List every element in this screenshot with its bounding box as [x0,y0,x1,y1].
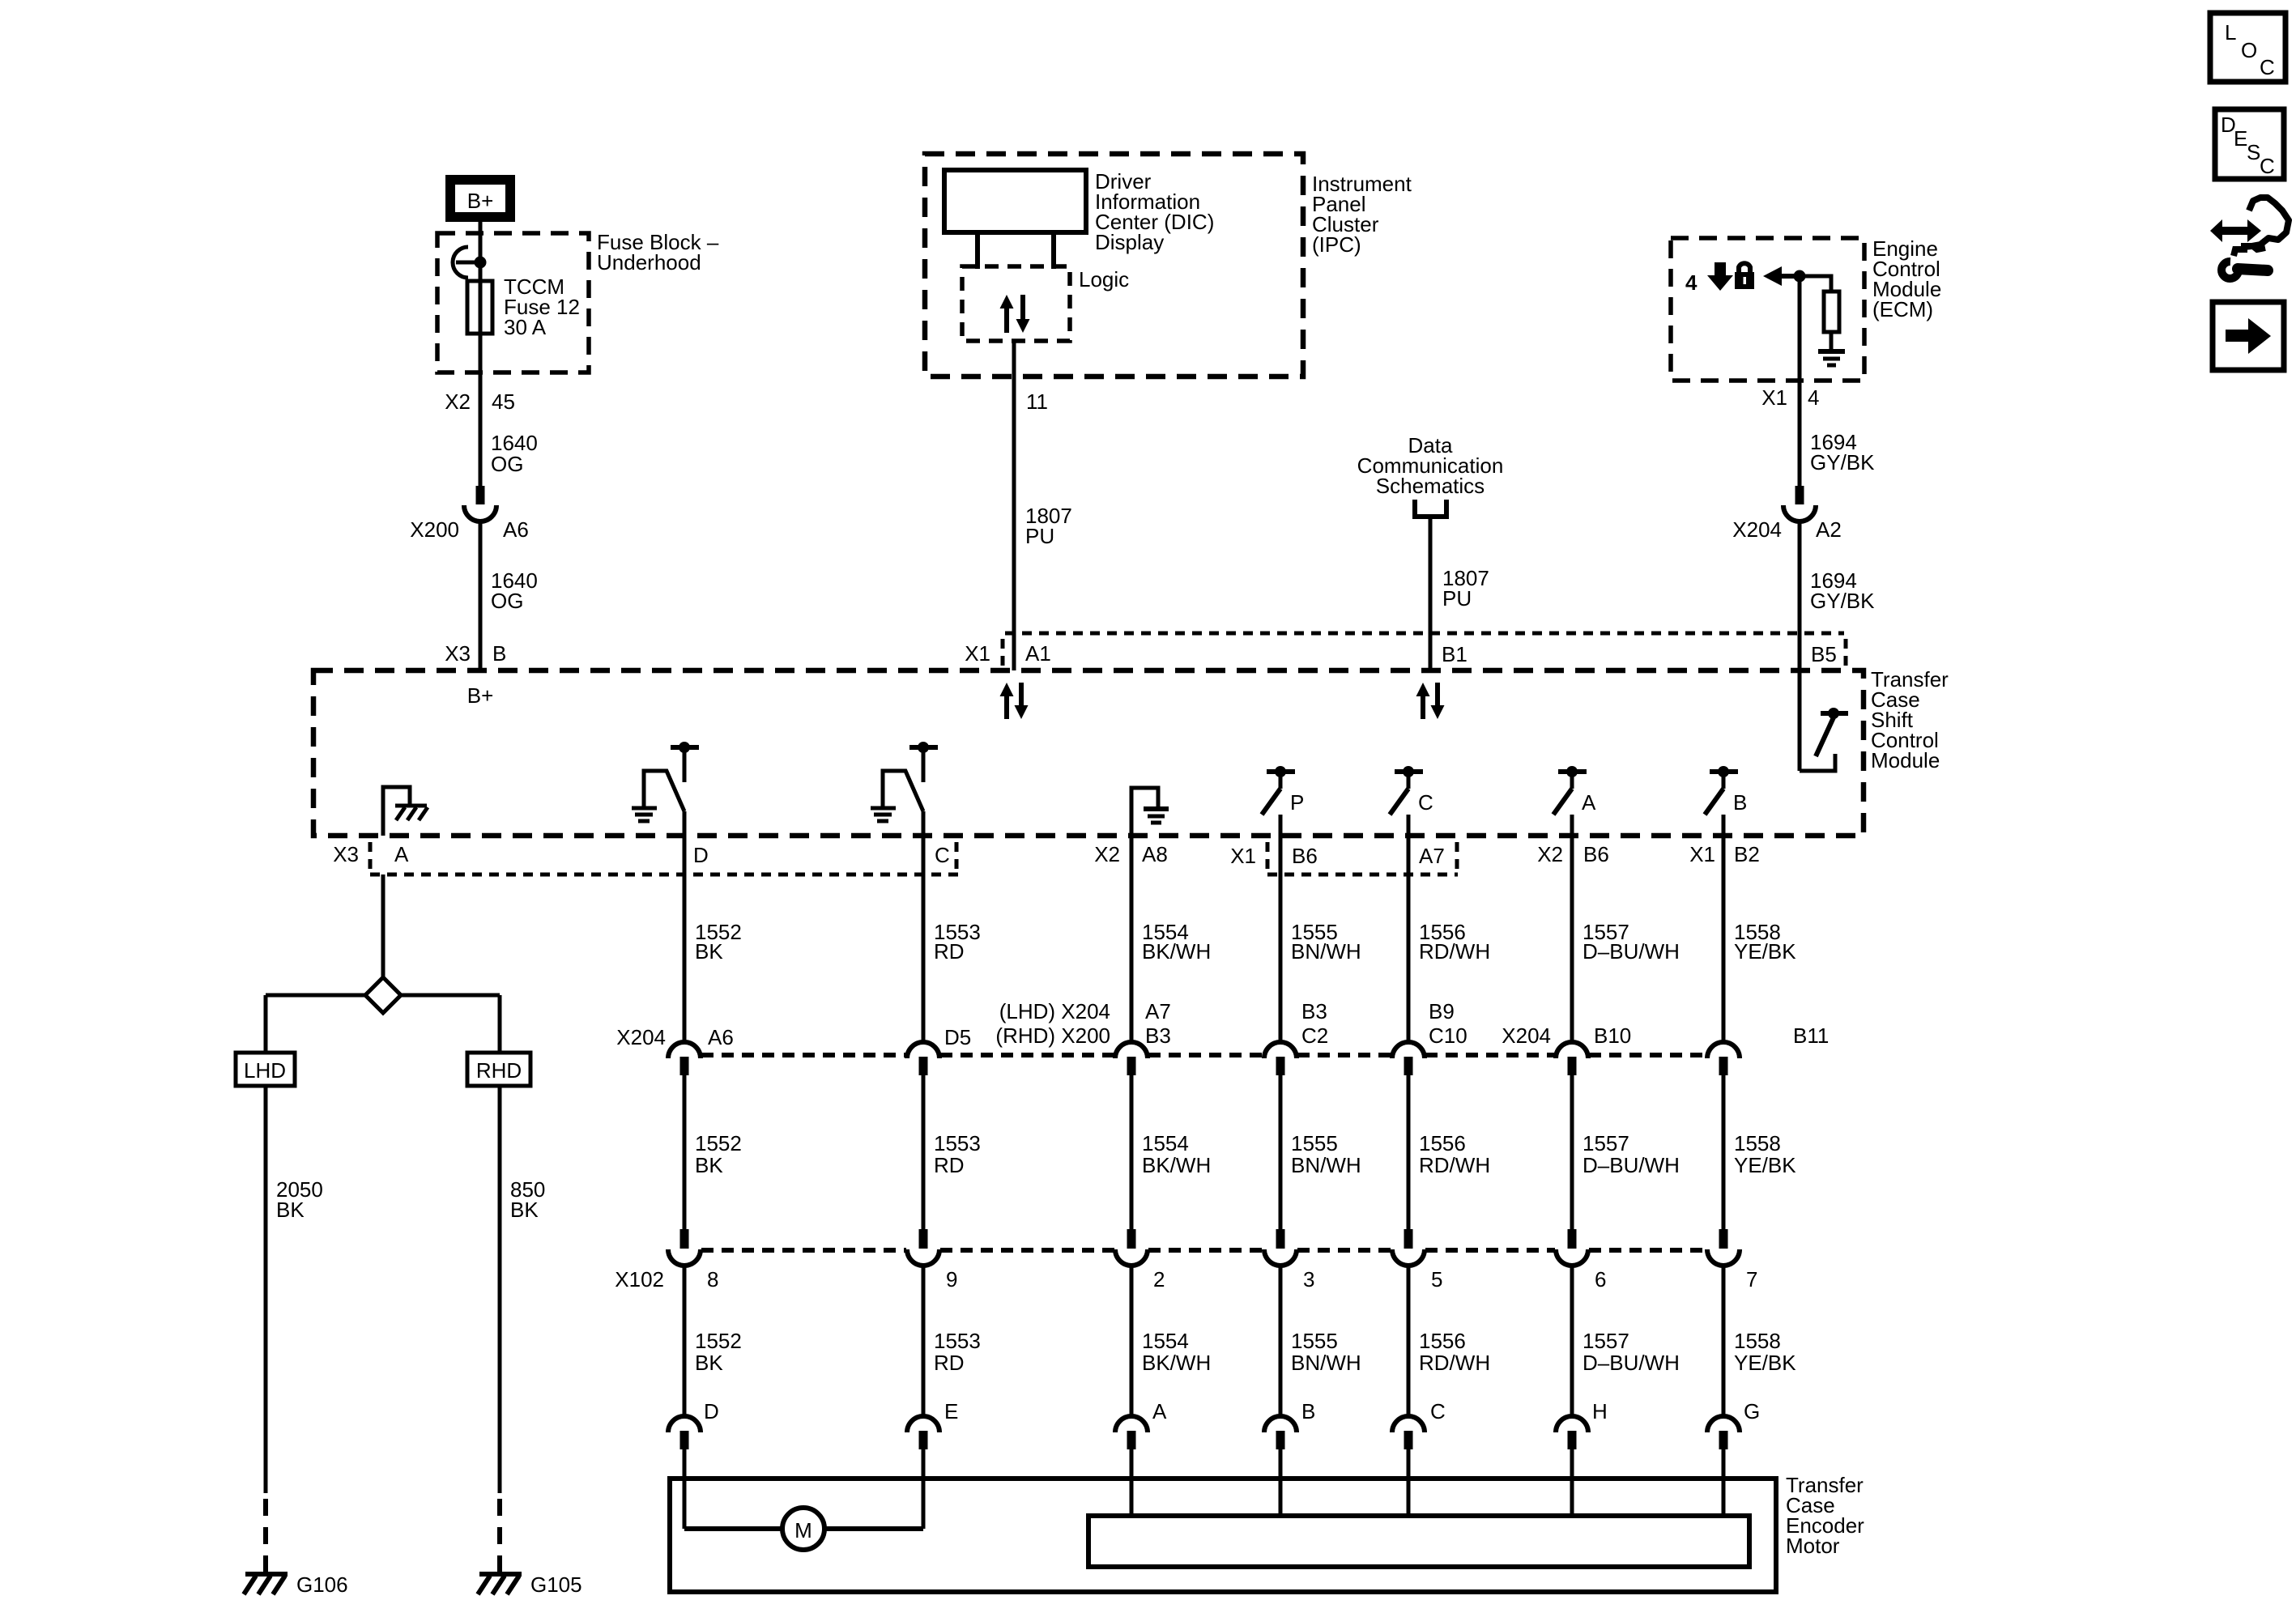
svg-text:GY/BK: GY/BK [1810,589,1875,613]
wire label 1554 BK/WH (3) [1142,1329,1211,1375]
DIC display box [944,170,1086,232]
wire 1554 BK/WH seg3 [1130,1266,1134,1418]
svg-text:BK/WH: BK/WH [1142,1153,1211,1177]
connector B5 right divider stub [1844,639,1848,666]
encoder contact bar [1088,1516,1749,1567]
connector X1 divider stub (mid) [1266,842,1270,869]
svg-text:3: 3 [1303,1267,1314,1291]
fuse block underhood dashed box [437,233,589,372]
splice diamond [365,977,401,1013]
wire label 1558 YE/BK (1) [1734,920,1796,964]
wire 1552 BK seg3 [683,1266,687,1418]
ground branch X2 A8 [1131,788,1169,836]
wire 1557 D-BU/WH seg1 [1570,815,1574,1044]
svg-text:D–BU/WH: D–BU/WH [1582,1351,1680,1375]
logic dashed box [962,266,1070,341]
wire stub to RHD box [498,995,502,1053]
svg-text:7: 7 [1746,1267,1757,1291]
switch A [1553,766,1596,815]
svg-text:RD: RD [934,939,965,964]
svg-text:C: C [1418,790,1433,815]
ground G106 [244,1572,348,1597]
wire label 1552 BK (1) [695,920,742,964]
wire label 1555 BN/WH (3) [1291,1329,1361,1375]
svg-text:D: D [704,1399,719,1423]
svg-text:X3: X3 [445,641,471,666]
svg-text:D–BU/WH: D–BU/WH [1582,1153,1680,1177]
wire label 1558 YE/BK (3) [1734,1329,1796,1375]
svg-text:B11: B11 [1793,1023,1829,1048]
svg-text:M: M [794,1518,812,1543]
wire 1555 BN/WH seg3 [1279,1266,1283,1418]
svg-text:1554: 1554 [1142,1329,1189,1353]
up-down arrows below B1 [1416,683,1445,719]
svg-text:11: 11 [1026,389,1048,414]
svg-text:X2: X2 [1537,842,1563,866]
connector pin B11 [1707,1023,1829,1075]
connector pin 7 [1707,1229,1757,1291]
svg-text:BK/WH: BK/WH [1142,1351,1211,1375]
pin label X1 B6 [1230,844,1318,868]
svg-text:A6: A6 [503,517,529,542]
svg-text:B9: B9 [1429,999,1455,1023]
connector pin 3 [1264,1229,1314,1291]
svg-text:1554: 1554 [1142,1131,1189,1155]
connector X204 pin A6 [616,1025,734,1075]
svg-text:BK: BK [695,1351,723,1375]
wire label 1553 RD (2) [934,1131,981,1177]
transfer case encoder motor box [670,1479,1776,1592]
wire B+ feed to fuse block [479,222,483,487]
svg-text:OG: OG [491,589,523,613]
wire label 1640 OG lower [491,568,538,613]
svg-text:9: 9 [946,1267,957,1291]
connector pin 2 [1115,1229,1165,1291]
svg-text:X1: X1 [1761,385,1787,410]
svg-text:G106: G106 [296,1572,348,1597]
ground branch X3 A [383,787,428,836]
svg-text:B: B [1733,790,1747,815]
pin label X2 45 [445,389,515,414]
svg-text:X1: X1 [965,641,990,666]
svg-text:1555: 1555 [1291,1131,1338,1155]
svg-text:RD: RD [934,1153,965,1177]
ground G105 [478,1572,582,1597]
switch B [1705,766,1747,815]
wire DIC leg left [975,232,980,269]
svg-text:4: 4 [1685,270,1698,295]
svg-text:RD: RD [934,1351,965,1375]
svg-text:(IPC): (IPC) [1312,232,1361,257]
wire DIC leg right [1051,232,1056,269]
svg-text:B6: B6 [1292,844,1318,868]
svg-text:B1: B1 [1442,642,1467,666]
connector row X204/X200 dashed links [701,1053,1706,1057]
svg-text:B: B [492,641,506,666]
wire D to motor [683,1449,687,1529]
svg-text:O: O [2241,38,2257,62]
svg-text:YE/BK: YE/BK [1734,939,1796,964]
svg-text:RHD: RHD [476,1058,522,1083]
wire label 1557 D-BU/WH (2) [1582,1131,1680,1177]
svg-text:RD/WH: RD/WH [1419,939,1490,964]
connector pin 5 [1392,1229,1442,1291]
connector row X102 dashed links [701,1248,1706,1253]
svg-text:B3: B3 [1301,999,1327,1023]
connector row X1 dashed line (bottom mid) [1267,873,1458,877]
motor connector pin B [1264,1399,1315,1449]
svg-text:B+: B+ [467,189,494,213]
wire label 1554 BK/WH (1) [1142,920,1211,964]
svg-text:P: P [1290,790,1304,815]
wire label 1807 PU (DIC) [1025,504,1072,548]
svg-text:C: C [2260,55,2275,79]
switch B5 mode select [1800,708,1848,771]
wire A to encoder [1130,1449,1134,1516]
wire label 1557 D-BU/WH (3) [1582,1329,1680,1375]
svg-text:1552: 1552 [695,1329,742,1353]
module label [1871,667,1949,772]
motor M [782,1508,824,1550]
battery B+ terminal box [445,175,515,222]
connector row X1 dashed line (top) [1005,632,1844,636]
svg-text:PU: PU [1442,586,1472,611]
svg-text:1552: 1552 [695,1131,742,1155]
wire label 1557 D-BU/WH (1) [1582,920,1680,964]
wire 1553 RD seg1 [922,811,926,1044]
svg-text:Module: Module [1871,748,1940,772]
connector pins B3 C2 [1264,999,1328,1075]
svg-text:C10: C10 [1429,1023,1467,1048]
pin label X1 A1 [965,641,1051,666]
svg-text:A7: A7 [1419,844,1445,868]
svg-text:G: G [1744,1399,1760,1423]
svg-text:BN/WH: BN/WH [1291,1153,1361,1177]
svg-text:Motor: Motor [1786,1534,1840,1558]
svg-text:BN/WH: BN/WH [1291,1351,1361,1375]
svg-text:(ECM): (ECM) [1872,297,1933,321]
connector pins B9 C10 [1392,999,1467,1075]
svg-text:1553: 1553 [934,1131,981,1155]
wire ground branch to diamond [381,874,386,980]
svg-text:1556: 1556 [1419,1131,1466,1155]
svg-text:2: 2 [1153,1267,1165,1291]
LOC reference box [2210,13,2285,82]
wire 1558 YE/BK seg1 [1722,815,1726,1044]
svg-text:C: C [935,843,950,867]
svg-text:B: B [1301,1399,1315,1423]
svg-text:E: E [2234,126,2247,151]
ECM internal pull-up resistor [1800,276,1839,350]
svg-text:X204: X204 [616,1025,666,1049]
svg-text:1557: 1557 [1582,1131,1629,1155]
wire 1554 BK/WH seg1 [1130,836,1134,1044]
wire 850 BK solid [498,1086,502,1493]
wire label 1556 RD/WH (1) [1419,920,1490,964]
motor connector pin G [1707,1399,1760,1449]
pin label X3 B [445,641,506,666]
left arrowhead to wire [1763,266,1806,286]
svg-text:YE/BK: YE/BK [1734,1351,1796,1375]
switch C [1390,766,1433,815]
fuse block label [597,230,719,274]
diagnostic hand-wrench icon [2210,198,2289,279]
wire 1553 RD seg2 [922,1075,926,1230]
wire label 1694 GY/BK lower [1810,568,1875,613]
svg-text:G105: G105 [530,1572,582,1597]
svg-text:6: 6 [1595,1267,1606,1291]
engine control module ECM dashed box [1671,238,1864,381]
wire stub to LHD box [264,995,268,1053]
circuit breaker hook symbol [453,247,487,278]
pin label X1 B2 [1689,842,1760,866]
wire 1694 GY/BK from ECM [1798,276,1802,487]
wire G to encoder [1722,1449,1726,1516]
motor connector pin C [1392,1399,1446,1449]
svg-text:BK: BK [510,1198,539,1222]
connector C divider stub [955,842,959,869]
svg-text:RD/WH: RD/WH [1419,1351,1490,1375]
wire E to motor [922,1449,926,1529]
wire 1694 GY/BK to module [1798,521,1802,771]
motor connector pin E [907,1399,958,1449]
wire label 1556 RD/WH (2) [1419,1131,1490,1177]
svg-text:YE/BK: YE/BK [1734,1153,1796,1177]
svg-text:A8: A8 [1142,842,1168,866]
wire 1807 PU from logic [1012,341,1016,670]
wire label 1553 RD (1) [934,920,981,964]
wire 1557 D-BU/WH seg3 [1570,1266,1574,1418]
wire 1556 RD/WH seg1 [1407,815,1411,1044]
svg-text:X2: X2 [1094,842,1120,866]
wire LHD/RHD branch bar [266,994,500,998]
svg-text:A1: A1 [1025,641,1051,666]
off-page reference bracket [1412,500,1449,517]
svg-text:B2: B2 [1734,842,1760,866]
svg-text:A6: A6 [708,1025,734,1049]
wire 1640 OG to module [479,521,483,670]
wire B to encoder [1279,1449,1283,1516]
wire label 1554 BK/WH (2) [1142,1131,1211,1177]
wire label 1555 BN/WH (1) [1291,920,1361,964]
wire 1556 RD/WH seg2 [1407,1075,1411,1230]
wire 1556 RD/WH seg3 [1407,1266,1411,1418]
svg-text:H: H [1592,1399,1608,1423]
connector A7 divider stub [1455,842,1459,869]
lock glyph [1735,263,1754,289]
svg-text:1558: 1558 [1734,1329,1781,1353]
connector X200 pin A6 inline [410,486,529,542]
svg-text:(LHD) X204: (LHD) X204 [999,999,1110,1023]
svg-text:X200: X200 [410,517,459,542]
RHD option box [467,1053,530,1086]
data communication schematics reference label [1357,433,1504,498]
wire 1552 BK seg2 [683,1075,687,1230]
encoder motor label [1786,1473,1864,1558]
connector pin 9 [907,1229,957,1291]
motor connector pin D [668,1399,719,1449]
wire 1555 BN/WH seg1 [1279,815,1283,1044]
connector row X3 dashed line (bottom left) [370,873,961,877]
motor connector pin H [1556,1399,1608,1449]
wire C to encoder [1407,1449,1411,1516]
wire label 1552 BK (3) [695,1329,742,1375]
wire 2050 BK solid [264,1086,268,1493]
motor connector pin A [1115,1399,1167,1449]
wire 1557 D-BU/WH seg2 [1570,1075,1574,1230]
svg-text:GY/BK: GY/BK [1810,450,1875,474]
wire label 1552 BK (2) [695,1131,742,1177]
wire 1553 RD seg3 [922,1266,926,1418]
svg-text:OG: OG [491,452,523,476]
ECM label [1872,236,1941,321]
svg-text:B10: B10 [1594,1023,1631,1048]
switch P [1262,766,1304,815]
wire 1555 BN/WH seg2 [1279,1075,1283,1230]
wire label 1556 RD/WH (3) [1419,1329,1490,1375]
down arrow glyph [1707,262,1733,291]
svg-text:30 A: 30 A [504,315,547,339]
pin label X1 4 [1761,385,1819,410]
ECM internal ground [1818,351,1845,365]
IPC label [1312,172,1412,257]
wire label 2050 BK [276,1177,323,1222]
svg-text:A: A [1582,790,1596,815]
svg-text:1555: 1555 [1291,1329,1338,1353]
svg-text:D: D [693,843,709,867]
svg-text:BK/WH: BK/WH [1142,939,1211,964]
ground switch C [871,742,938,821]
svg-text:1558: 1558 [1734,1131,1781,1155]
svg-text:E: E [944,1399,958,1423]
connector X204 pin A2 inline [1732,486,1842,542]
svg-text:1553: 1553 [934,1329,981,1353]
svg-text:B6: B6 [1583,842,1609,866]
svg-text:X1: X1 [1230,844,1256,868]
svg-text:4: 4 [1808,385,1819,410]
wire label 1555 BN/WH (2) [1291,1131,1361,1177]
svg-text:1557: 1557 [1582,1329,1629,1353]
svg-text:RD/WH: RD/WH [1419,1153,1490,1177]
ground switch D [632,742,699,821]
wire 1558 YE/BK seg2 [1722,1075,1726,1230]
svg-text:Display: Display [1095,230,1164,254]
DIC label [1095,169,1214,254]
svg-text:45: 45 [492,389,515,414]
wire label 1640 OG upper [491,431,538,476]
pin label X3 A [333,842,409,866]
svg-text:S: S [2247,140,2260,164]
svg-text:X2: X2 [445,389,471,414]
wire H to encoder [1570,1449,1574,1516]
pin label X2 A8 [1094,842,1168,866]
svg-text:PU: PU [1025,524,1054,548]
connector pin 6 [1556,1229,1606,1291]
DESC reference box [2215,109,2284,179]
svg-text:A2: A2 [1816,517,1842,542]
svg-text:X204: X204 [1502,1023,1551,1048]
svg-text:BK: BK [695,1153,723,1177]
svg-text:L: L [2225,20,2236,45]
svg-text:X204: X204 [1732,517,1782,542]
svg-text:(RHD) X200: (RHD) X200 [995,1023,1110,1048]
svg-text:D5: D5 [944,1025,971,1049]
connector X1 left divider stub [1001,639,1005,666]
up-down arrows below A1 [1000,683,1029,719]
svg-text:Schematics: Schematics [1376,474,1485,498]
svg-text:8: 8 [707,1267,718,1291]
svg-text:5: 5 [1431,1267,1442,1291]
svg-text:B5: B5 [1811,642,1837,666]
svg-text:Underhood: Underhood [597,250,701,274]
wire 2050 BK dashed tail [263,1499,268,1574]
wire 1807 PU (data) [1429,517,1433,670]
wire 850 BK dashed tail [497,1499,502,1574]
fuse TCCM Fuse 12 30 A [467,274,580,339]
wire label 1558 YE/BK (2) [1734,1131,1796,1177]
svg-text:A: A [1152,1399,1167,1423]
svg-text:A: A [394,842,409,866]
logic up-down arrows [1000,295,1030,333]
svg-text:D–BU/WH: D–BU/WH [1582,939,1680,964]
forward arrow box [2213,302,2284,370]
svg-text:X1: X1 [1689,842,1715,866]
svg-text:LHD: LHD [244,1058,286,1083]
LHD option box [236,1053,295,1086]
instrument panel cluster IPC dashed box [925,154,1303,377]
svg-text:C: C [1430,1399,1446,1423]
pin label X2 B6 [1537,842,1609,866]
motor circuit wire [684,1526,923,1531]
svg-text:BN/WH: BN/WH [1291,939,1361,964]
connector X102 pin 8 [615,1229,718,1291]
svg-text:BK: BK [276,1198,305,1222]
wire label 850 BK [510,1177,545,1222]
svg-text:C: C [2260,154,2275,178]
svg-text:C2: C2 [1301,1023,1328,1048]
wire 1558 YE/BK seg3 [1722,1266,1726,1418]
wire label 1553 RD (3) [934,1329,981,1375]
wire 1552 BK seg1 [683,811,687,1044]
wire label 1694 GY/BK upper [1810,430,1875,474]
wire 1554 BK/WH seg2 [1130,1075,1134,1230]
connector X3 divider stub [368,842,373,869]
svg-text:B+: B+ [467,683,494,708]
wire label 1807 PU (data) [1442,566,1489,611]
transfer case shift control module dashed box [313,670,1864,836]
connector X204 pin B10 [1502,1023,1631,1075]
svg-text:B3: B3 [1145,1023,1171,1048]
connector (LHD) X204 (RHD) X200 pins A7 B3 [995,999,1170,1075]
svg-text:A7: A7 [1145,999,1171,1023]
svg-text:X102: X102 [615,1267,664,1291]
svg-text:Logic: Logic [1079,267,1129,291]
svg-text:1556: 1556 [1419,1329,1466,1353]
connector pin D5 [907,1025,971,1075]
svg-text:BK: BK [695,939,723,964]
svg-text:X3: X3 [333,842,359,866]
